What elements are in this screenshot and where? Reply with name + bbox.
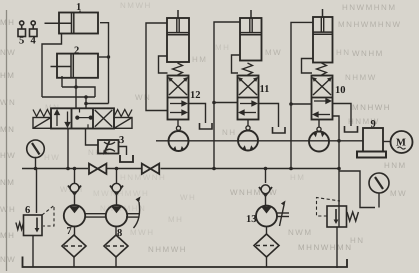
wire valve port A drop bbox=[75, 79, 77, 109]
valve 11 crossed arrows bbox=[238, 77, 258, 95]
svg-text:HN: HN bbox=[350, 236, 365, 245]
svg-text:2: 2 bbox=[74, 46, 79, 57]
node A junction bbox=[74, 85, 78, 89]
wire valve10 left port link bbox=[291, 103, 312, 105]
pump 13 variable arrow bbox=[277, 201, 290, 227]
wire pump8 riser bbox=[116, 169, 118, 206]
svg-text:11: 11 bbox=[260, 84, 270, 95]
wire cap jog to port B bbox=[86, 103, 109, 105]
svg-text:WH: WH bbox=[180, 193, 196, 202]
wire valve10 to motor bbox=[318, 120, 320, 132]
svg-text:HM: HM bbox=[290, 173, 305, 182]
wire filter7 to tank bbox=[73, 257, 75, 267]
svg-text:NH: NH bbox=[222, 128, 237, 137]
wire pump7 riser bbox=[74, 169, 76, 206]
V1 left square arrows bbox=[55, 110, 70, 126]
cylinder C2 bbox=[51, 54, 99, 78]
wire cyl12 bottom jog bbox=[159, 56, 168, 73]
pressure gauge G1 bbox=[27, 140, 45, 169]
motor M12 bbox=[169, 126, 189, 151]
pump 13 bbox=[256, 206, 277, 227]
pump unit 9 bbox=[357, 128, 386, 158]
node supply-10 bbox=[289, 167, 293, 171]
svg-text:12: 12 bbox=[190, 90, 201, 101]
svg-text:4: 4 bbox=[31, 36, 37, 47]
wire relief R2 outlet bbox=[336, 227, 338, 268]
cylinder C10 bbox=[313, 9, 333, 63]
valve 12 spring bbox=[173, 63, 183, 75]
wire check13 riser bbox=[265, 169, 267, 184]
svg-text:MHNWHMN: MHNWHMN bbox=[298, 243, 353, 252]
tank T11 bbox=[273, 127, 286, 133]
svg-text:MNHWH: MNHWH bbox=[352, 103, 391, 112]
valve 10 spring bbox=[317, 63, 327, 75]
svg-text:6: 6 bbox=[25, 205, 30, 216]
svg-text:MW: MW bbox=[390, 189, 407, 198]
throttle valve 3 bbox=[98, 140, 119, 155]
wire valve11 left port link bbox=[214, 102, 238, 104]
relief 6 pilot dashes bbox=[42, 206, 54, 227]
wire upper link line bbox=[62, 76, 95, 97]
svg-text:7: 7 bbox=[67, 226, 72, 237]
node P junction bbox=[66, 167, 70, 171]
pump 8 variable arrow bbox=[126, 197, 141, 229]
wire supply to right gauge bbox=[339, 171, 375, 208]
filter F13 bbox=[254, 234, 279, 257]
svg-text:MWNHMWH: MWNHMWH bbox=[93, 189, 149, 198]
valve 12 body bbox=[168, 76, 189, 120]
svg-text:HW: HW bbox=[44, 153, 60, 162]
svg-text:MNHWMHNW: MNHWMHNW bbox=[338, 20, 402, 29]
valve 12 flow arrows bbox=[170, 101, 187, 114]
relief valve R2 bbox=[327, 206, 347, 227]
V1 right spring bbox=[114, 110, 132, 117]
wire cyl12 top port bbox=[146, 23, 168, 111]
svg-text:NWM: NWM bbox=[288, 228, 313, 237]
svg-text:NM: NM bbox=[0, 178, 15, 187]
node supply-11 bbox=[212, 167, 216, 171]
relief R2 pilot dashes bbox=[317, 198, 341, 217]
svg-text:NMWH: NMWH bbox=[120, 1, 152, 10]
wire filter8 to tank bbox=[115, 257, 117, 267]
wire check13 to pump13 bbox=[265, 196, 267, 206]
svg-text:WH: WH bbox=[0, 205, 16, 214]
wire valve10 right to tank bbox=[333, 104, 352, 127]
wire cyl10 bottom jog bbox=[302, 59, 314, 74]
wire valve11 right to tank bbox=[259, 104, 279, 128]
wire cyl1 cap-port right side bbox=[100, 23, 109, 104]
main supply line bbox=[22, 168, 339, 170]
wire gauge drop to relief 6 bbox=[36, 169, 38, 214]
relief valve 6 bbox=[24, 215, 43, 236]
svg-text:NHMWH: NHMWH bbox=[148, 245, 187, 254]
tank T10 bbox=[345, 126, 358, 132]
node relief riser crossing bbox=[337, 139, 341, 143]
svg-text:HM: HM bbox=[192, 55, 207, 64]
wire cyl2 right port bbox=[99, 56, 109, 58]
wire valve11 to motor bbox=[247, 120, 249, 131]
directional valve V1 body bbox=[51, 108, 114, 128]
valve 11 flow arrows bbox=[240, 101, 257, 114]
wire valve12 right to tank bbox=[189, 104, 206, 124]
V1 centre closed marks bbox=[76, 108, 92, 128]
relief 6 spring bbox=[16, 223, 24, 230]
motor M10 bbox=[309, 127, 329, 151]
tank T12 bbox=[200, 123, 213, 129]
V1 left solenoid bbox=[33, 118, 51, 129]
svg-text:HNM: HNM bbox=[384, 161, 407, 170]
V1 right square crossed arrows bbox=[95, 110, 112, 127]
svg-text:HN: HN bbox=[336, 48, 351, 57]
valve 10 crossed arrows bbox=[312, 77, 332, 95]
motor M11 bbox=[238, 126, 258, 151]
wire cyl1 rod-port down-left bbox=[42, 34, 62, 98]
V1 right solenoid bbox=[114, 118, 132, 129]
wire filter13 to tank bbox=[266, 257, 268, 267]
svg-text:NHMW: NHMW bbox=[345, 73, 377, 82]
wire valve10 lower-right to relief riser bbox=[333, 116, 340, 227]
shut-off valve S1 bbox=[89, 164, 106, 174]
node supply to relief-13 riser bbox=[337, 167, 341, 171]
node B junction bbox=[84, 95, 88, 99]
tank return line bbox=[23, 257, 348, 268]
node pump7 riser bbox=[73, 167, 77, 171]
svg-text:HM: HM bbox=[0, 71, 15, 80]
shut-off valve S2 bbox=[142, 164, 159, 174]
wire cyl10 top port to supply bbox=[291, 22, 313, 168]
shaft pumps 7-8 bbox=[85, 214, 107, 217]
node cyl2-right joins cap line bbox=[107, 55, 110, 58]
cylinder C12 bbox=[167, 10, 189, 62]
cylinder C1 bbox=[45, 13, 99, 34]
node valve10 left port bbox=[289, 102, 293, 106]
node check13 bbox=[264, 167, 268, 171]
filter F7 bbox=[62, 235, 86, 257]
svg-text:13: 13 bbox=[246, 214, 257, 225]
V1 left spring bbox=[33, 110, 51, 117]
valve 11 spring bbox=[243, 63, 253, 75]
filter F8 bbox=[104, 235, 128, 257]
wire valve port B drop bbox=[85, 97, 87, 108]
svg-text:MH: MH bbox=[0, 231, 15, 240]
svg-text:MW: MW bbox=[265, 48, 282, 57]
svg-text:NW: NW bbox=[0, 255, 16, 264]
node B jog junction bbox=[84, 102, 88, 106]
svg-text:WN: WN bbox=[0, 98, 16, 107]
wire lower link line bbox=[42, 96, 95, 98]
svg-text:5: 5 bbox=[19, 36, 24, 47]
wire pump7 to filter bbox=[74, 226, 76, 236]
svg-text:MH: MH bbox=[0, 18, 15, 27]
page margin rule bbox=[6, 10, 8, 271]
motor header line bbox=[156, 140, 363, 142]
limit switch 4 bbox=[30, 21, 38, 37]
svg-text:MH: MH bbox=[168, 215, 183, 224]
pump 7 bbox=[64, 205, 85, 226]
pump 8 bbox=[106, 205, 127, 226]
svg-text:10: 10 bbox=[335, 85, 346, 96]
valve 11 body bbox=[238, 76, 259, 120]
wire pump8 to filter bbox=[115, 226, 117, 236]
svg-text:3: 3 bbox=[119, 135, 124, 146]
wire V1 T-port to throttle bbox=[86, 129, 99, 146]
svg-text:MN: MN bbox=[0, 125, 15, 134]
check valve K13 bbox=[259, 185, 272, 196]
wire cyl11 top port to supply bbox=[214, 22, 240, 169]
svg-text:HNWMHNM: HNWMHNM bbox=[342, 3, 397, 12]
check valve K7 bbox=[68, 183, 81, 194]
svg-text:WN: WN bbox=[135, 93, 151, 102]
svg-text:9: 9 bbox=[371, 119, 376, 130]
wire throttle to tank bbox=[119, 147, 127, 156]
wire valve12 to motor bbox=[177, 120, 179, 131]
wire relief 6 outlet bbox=[32, 236, 34, 268]
valve 10 body bbox=[312, 76, 333, 120]
node pump8 riser bbox=[115, 167, 119, 171]
wire cyl11 bottom jog bbox=[232, 55, 241, 73]
svg-text:MWH: MWH bbox=[130, 228, 155, 237]
limit switch 5 bbox=[18, 21, 26, 37]
svg-text:WNHM: WNHM bbox=[352, 49, 384, 58]
valve 10 flow arrows bbox=[314, 99, 331, 117]
wire V1 P-port drop bbox=[67, 129, 69, 169]
tank T3 bbox=[120, 155, 133, 162]
electric motor M bbox=[383, 131, 413, 153]
pressure gauge G2 bbox=[369, 173, 389, 208]
svg-text:HW: HW bbox=[0, 151, 16, 160]
node valve11 left port bbox=[212, 101, 216, 105]
check valve K8 bbox=[110, 183, 123, 194]
cylinder C11 bbox=[240, 10, 262, 61]
relief R2 spring W bbox=[347, 212, 358, 221]
node gauge junction bbox=[34, 167, 38, 171]
wire pump13 to filter bbox=[266, 227, 268, 235]
svg-text:NW: NW bbox=[0, 48, 16, 57]
svg-text:MH: MH bbox=[215, 43, 230, 52]
valve 12 crossed arrows bbox=[168, 77, 188, 95]
